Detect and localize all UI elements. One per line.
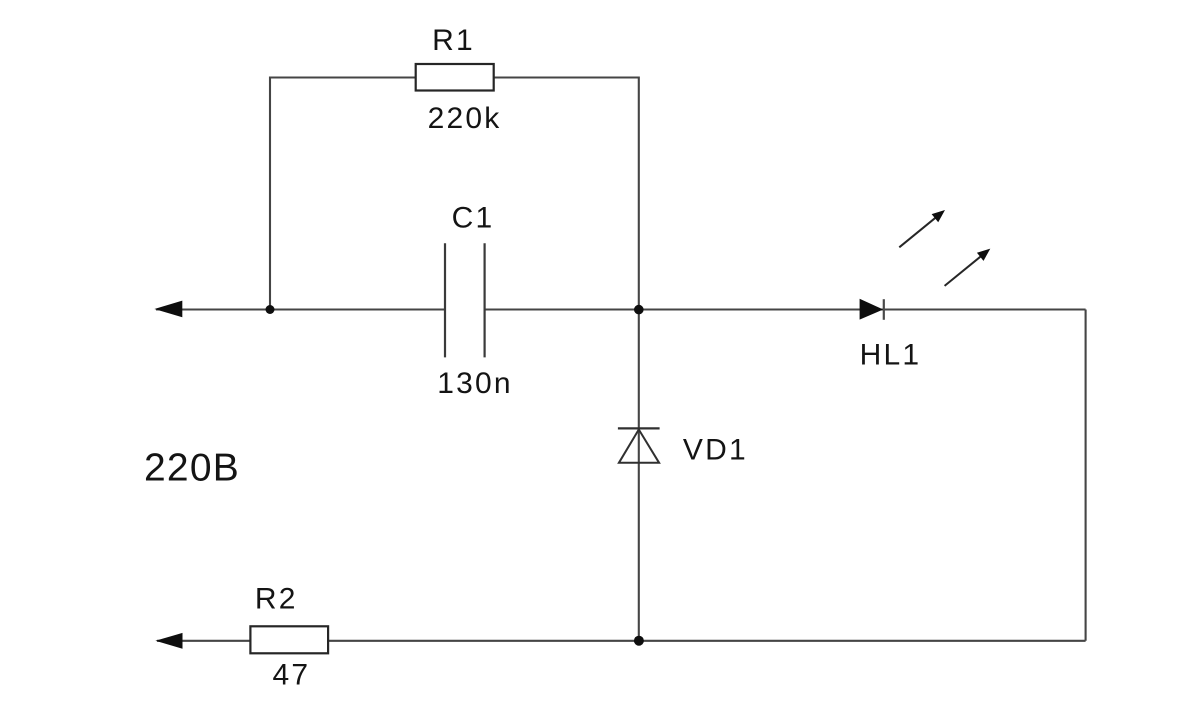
svg-text:HL1: HL1 [860,338,922,371]
wire main right segment [485,308,1086,310]
wire bottom [157,640,1086,642]
svg-text:VD1: VD1 [683,433,748,466]
node junction left [266,305,275,314]
wire main left segment [156,308,445,310]
terminal arrow top-left [154,301,182,318]
capacitor C1 left plate [444,243,446,357]
light arrow 1 [896,206,948,251]
svg-text:220k: 220k [428,102,502,135]
resistor R1 [416,64,494,91]
svg-text:220В: 220В [144,447,240,490]
light arrow 2 [941,245,993,290]
wire right side vertical [1085,310,1087,641]
wire top loop left vertical [269,77,271,310]
svg-text:130n: 130n [437,367,513,400]
svg-text:R1: R1 [432,24,475,57]
capacitor C1 right plate [484,243,486,357]
LED HL1 [860,299,884,320]
resistor R2 [250,626,328,653]
node junction bottom [634,636,644,646]
terminal arrow bottom-left [155,633,182,649]
wire top loop horizontal [270,76,639,78]
svg-text:R2: R2 [255,583,298,616]
node junction center [634,305,644,315]
svg-text:47: 47 [273,659,311,692]
diode VD1 [618,428,660,462]
svg-text:C1: C1 [452,202,495,235]
wire right vertical through diode [638,77,640,641]
